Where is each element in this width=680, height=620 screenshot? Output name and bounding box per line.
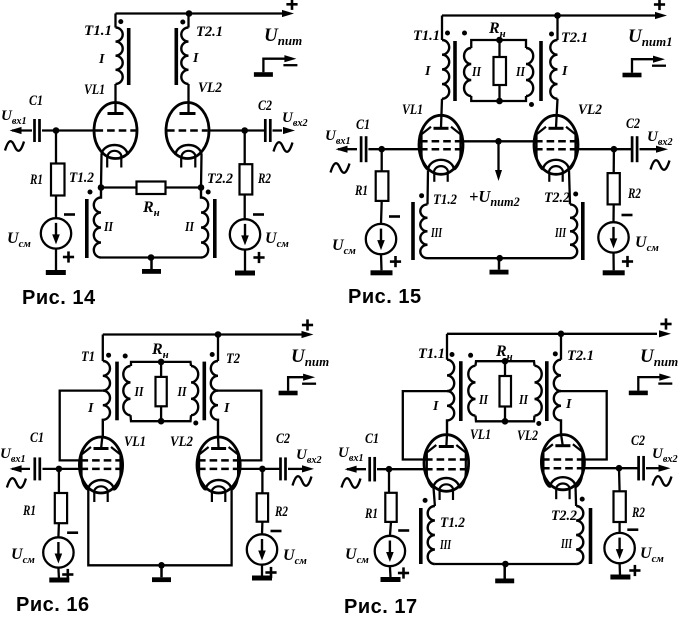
tube VL2 triode (fig.14) (166, 103, 209, 168)
tube VL1 beam tetrode (fig.17) (424, 435, 469, 500)
transformer T1.1 lead (fig.17) (446, 334, 448, 360)
plus sign on rail (fig.15) (654, 0, 665, 10)
transformer T1.1 core (fig.17) (459, 361, 463, 421)
minus sign Usm2 (fig.17) (627, 528, 638, 531)
power return symbol (fig.14) (254, 55, 298, 77)
phase dot T2 (fig.16) (210, 352, 215, 357)
svg-text:II: II (515, 65, 525, 80)
svg-text:III: III (439, 538, 451, 553)
wire cathode1 to Rn (fig.14) (101, 186, 137, 188)
svg-text:Рис. 15: Рис. 15 (348, 286, 422, 308)
anode lead VL2 inside envelope (fig.17) (561, 434, 563, 447)
transformer T1.1 winding I (fig.15) (442, 40, 449, 99)
winding II left top lead (fig.17) (476, 361, 506, 366)
transformer T2.1 winding I (fig.14) (181, 28, 188, 84)
bias source Usm left (fig.16) (43, 537, 73, 567)
winding II right top lead (fig.15) (500, 40, 527, 48)
svg-text:I: I (424, 64, 431, 79)
bias source Usm left (fig.17) (375, 536, 405, 566)
wire node to C2 (fig.14) (245, 129, 266, 131)
wire node to C2 (fig.16) (262, 468, 280, 470)
screen grid dashed VL1 (fig.15) (420, 140, 462, 143)
anode lead VL2 inside envelope (fig.16) (217, 436, 220, 450)
winding II left top lead (fig.16) (131, 362, 161, 366)
node: rail junction T2.1 (fig.15) (554, 12, 561, 19)
wire R2 to Usm right (fig.15) (612, 204, 615, 222)
svg-text:С2: С2 (626, 116, 640, 132)
plus sign on supply rail (fig.14) (286, 0, 297, 10)
svg-text:Рис. 16: Рис. 16 (16, 594, 90, 616)
control grid dashed VL2 (fig.15) (535, 148, 577, 151)
load resistor Rn (fig.14) (137, 182, 166, 195)
svg-text:III: III (430, 226, 442, 241)
node: rail junction to T2.1 (fig.14) (186, 10, 193, 17)
grid wire VL2 to node (fig.14) (208, 129, 245, 131)
winding II right bottom lead (fig.17) (505, 416, 535, 422)
input arrowhead left (fig.17) (345, 466, 357, 473)
resistor R1 (fig.17) (385, 493, 396, 522)
center ground (fig.15) (490, 258, 509, 274)
screen grid dashed VL2 (fig.17) (542, 458, 584, 461)
node: input junction 1 (fig.16) (56, 466, 63, 473)
node: grid 2 junction (fig.15) (611, 146, 618, 153)
minus sign Usm2 (fig.15) (622, 214, 633, 217)
grid wire VL2 to node (fig.17) (583, 467, 619, 469)
svg-text:VL1: VL1 (84, 82, 105, 98)
screen grid dashed VL2 (fig.16) (198, 459, 239, 462)
wire Usm to ground (fig.15) (380, 254, 383, 270)
node: bottom rail junction (fig.16) (158, 562, 165, 569)
supply rail +Upit (fig.17) (447, 333, 657, 335)
transformer T1 winding I lower half (fig.16) (103, 391, 110, 437)
anode lead VL1 inside envelope (fig.17) (445, 434, 448, 448)
center ground (fig.17) (495, 564, 514, 583)
svg-text:R1: R1 (354, 183, 368, 199)
node: Rn bottom junction (fig.15) (496, 98, 503, 105)
tube VL1 beam tetrode (fig.16) (79, 437, 122, 502)
svg-text:R1: R1 (364, 506, 378, 522)
node: Rn top junction (fig.15) (496, 37, 503, 44)
minus sign Usm1 (fig.15) (389, 215, 400, 218)
power return symbol (fig.15) (623, 56, 667, 78)
bias source Usm right (fig.14) (230, 219, 260, 249)
supply rail +Upit (fig.14) (116, 12, 286, 14)
resistor R2 (fig.15) (608, 173, 620, 204)
svg-text:I: I (87, 401, 94, 416)
screen grid dashed VL1 (fig.16) (81, 459, 122, 462)
load resistor Rn (fig.15) (494, 57, 507, 85)
node: screen bus junction (fig.15) (495, 138, 502, 145)
tap wire T1 to screen grid VL1 (fig.16) (60, 391, 103, 461)
phase dot T1.2 (fig.17) (423, 498, 428, 503)
sine symbol input 2 (fig.14) (274, 142, 293, 152)
bias source Usm left (fig.15) (366, 224, 396, 254)
supply rail +Upit (fig.16) (103, 333, 304, 335)
svg-text:III: III (560, 537, 572, 552)
rail arrowhead (fig.15) (655, 12, 667, 19)
wire C1 to grid node (fig.14) (42, 129, 96, 131)
wire R2 to Usm (fig.16) (261, 522, 264, 535)
output wire right (fig.17) (646, 467, 659, 469)
svg-text:VL1: VL1 (402, 102, 423, 118)
screen grid dashed VL2 (fig.15) (535, 140, 577, 143)
bias source Usm right (fig.16) (247, 534, 277, 564)
wire Rn bottom (fig.17) (504, 407, 506, 422)
rail arrowhead (fig.16) (302, 331, 314, 338)
transformer T2.1 winding I lower half (fig.17) (554, 391, 561, 435)
wire R1 to Usm source (fig.14) (55, 196, 57, 219)
transformer T1.2 winding III (fig.17) (428, 506, 435, 564)
minus sign Usm1 (fig.17) (398, 529, 409, 532)
winding II bottom wire (fig.15) (471, 96, 526, 101)
svg-text:II: II (518, 393, 528, 408)
phase dot T1 (fig.16) (106, 353, 111, 358)
circuit fig.17: ultralinear push-pull with cathode windings III (338, 318, 678, 618)
input arrowhead left (fig.15) (336, 146, 348, 153)
phase dot T1.2 (fig.14) (88, 190, 93, 195)
ground under Usm right (fig.17) (610, 575, 630, 580)
node: input junction 2 (fig.17) (616, 465, 623, 472)
wire Rn top (fig.16) (160, 362, 162, 377)
minus sign at Usm 1 (fig.14) (64, 213, 75, 216)
cathode lead VL2 (fig.15) (569, 170, 570, 204)
cathode wire VL1 to bottom rail (fig.16) (88, 489, 231, 565)
phase dot T2.1 (fig.14) (180, 20, 185, 25)
wire Usm2 to ground (fig.14) (244, 250, 246, 271)
sine symbol 1 (fig.16) (7, 478, 26, 488)
wire C1 to grid (fig.16) (43, 468, 81, 470)
wire R2 to Usm right (fig.14) (244, 195, 246, 220)
sine symbol input 1 (fig.14) (5, 141, 24, 151)
transformer T2.1 lead (fig.15) (556, 16, 558, 41)
svg-text:I: I (98, 52, 105, 67)
svg-text:С1: С1 (356, 117, 370, 133)
svg-text:Т2.1: Т2.1 (196, 24, 223, 40)
load resistor Rn (fig.17) (500, 376, 512, 407)
transformer T2 core (fig.16) (203, 362, 207, 421)
svg-text:С2: С2 (631, 433, 645, 449)
cathode lead VL2 (fig.17) (574, 487, 577, 507)
screen bus wire between tubes (fig.15) (463, 140, 534, 142)
svg-text:I: I (432, 399, 439, 414)
svg-text:Т1.1: Т1.1 (413, 28, 440, 44)
transformer T2.1 winding I (fig.15) (550, 40, 557, 99)
transformer T2.2 winding III (fig.17) (576, 506, 583, 564)
phase dot winding II left (fig.17) (468, 353, 473, 358)
winding II left bottom lead (fig.17) (476, 416, 506, 422)
phase dot winding II right (fig.16) (193, 421, 198, 426)
transformer T1 core (fig.16) (115, 362, 119, 421)
node: grid 1 junction (fig.15) (378, 146, 385, 153)
capacitor C1 (fig.16) (35, 457, 40, 480)
transformer T2.2 core (fig.15) (581, 202, 585, 260)
wire node to R2 (fig.16) (261, 469, 263, 493)
minus sign Usm2 (fig.16) (271, 530, 282, 533)
winding II left (fig.17) (468, 366, 475, 416)
capacitor C2 (fig.15) (632, 136, 637, 162)
ground under Usm left (fig.14) (46, 270, 66, 275)
wire to R1 (fig.16) (58, 469, 60, 493)
arrowhead right (fig.16) (302, 465, 314, 472)
resistor R2 (fig.16) (257, 493, 268, 521)
svg-text:VL1: VL1 (470, 427, 491, 443)
svg-text:R2: R2 (274, 504, 288, 520)
capacitor C2 (fig.14) (265, 119, 270, 142)
transformer T1.1 core (fig.15) (453, 41, 457, 101)
output wire right (fig.15) (640, 148, 658, 150)
transformer T2.2 core (fig.14) (213, 199, 217, 258)
winding II right (fig.15) (526, 48, 533, 96)
svg-text:Т1.2: Т1.2 (440, 515, 465, 531)
anode lead VL2 (fig.15) (556, 99, 558, 128)
svg-text:II: II (177, 385, 187, 400)
wire node to R2 (fig.15) (613, 149, 616, 173)
load resistor Rn (fig.16) (156, 377, 167, 406)
winding II left top lead (fig.15) (471, 40, 499, 48)
phase dot T2.1 (fig.15) (549, 32, 554, 37)
node: Rn bottom junction (fig.16) (158, 418, 165, 425)
anode lead VL1 (fig.15) (441, 99, 442, 128)
transformer T2.2 core (fig.17) (589, 508, 593, 564)
node: input junction 1 (fig.17) (386, 466, 393, 473)
wire to R1 (fig.15) (381, 149, 383, 171)
sine symbol 2 (fig.17) (653, 476, 672, 486)
grid wire VL2 to node (fig.15) (578, 148, 614, 150)
svg-text:С1: С1 (365, 431, 379, 447)
ground under Usm left (fig.17) (381, 577, 401, 582)
winding II right top lead (fig.17) (505, 361, 535, 366)
node: bottom junction (fig.15) (496, 255, 503, 262)
plus sign Usm2 (fig.17) (629, 565, 640, 576)
arrowhead right (fig.14) (283, 127, 295, 134)
winding II right (fig.17) (535, 366, 542, 416)
plus sign on rail (fig.17) (660, 318, 671, 329)
screen grid dashed VL1 (fig.17) (425, 458, 467, 461)
resistor R1 (fig.16) (55, 493, 67, 523)
svg-text:II: II (184, 220, 194, 235)
minus sign at Usm 2 (fig.14) (253, 213, 264, 216)
anode lead VL2 (wire) (fig.14) (187, 84, 189, 114)
tap wire T2.1 to screen VL2 (fig.17) (561, 391, 607, 459)
input arrowhead left (fig.16) (10, 465, 22, 472)
ground under Usm left (fig.16) (49, 578, 69, 583)
power return symbol (fig.16) (279, 374, 317, 396)
winding II left (fig.16) (123, 366, 130, 415)
sine symbol 1 (fig.17) (342, 478, 361, 488)
svg-text:II: II (134, 385, 144, 400)
anode lead VL1 inside envelope (fig.16) (101, 436, 102, 450)
transformer T2.1 core (fig.17) (545, 361, 549, 421)
wire Rn to cathode2 (fig.14) (166, 186, 202, 188)
resistor R1 (fig.14) (51, 164, 65, 196)
phase dot T1.2 (fig.15) (419, 193, 424, 198)
circuit fig.14: push-pull triode amplifier, load R_n between cathode windings (1, 0, 308, 309)
minus sign Usm1 (fig.16) (67, 531, 78, 534)
transformer T1.1 core (fig.14) (127, 28, 131, 85)
cathode lead VL1 (fig.17) (434, 488, 435, 507)
phase dot winding II left (fig.15) (462, 31, 467, 36)
transformer T1 lead (fig.16) (102, 335, 104, 362)
svg-text:С1: С1 (30, 430, 44, 446)
svg-text:VL2: VL2 (170, 434, 193, 450)
sine symbol 2 (fig.16) (293, 476, 312, 486)
capacitor C1 (fig.17) (370, 457, 375, 482)
transformer T2 winding I lower half (fig.16) (211, 391, 218, 437)
svg-text:I: I (223, 401, 230, 416)
transformer T2.1 primary lead (wire) (fig.14) (187, 14, 189, 28)
ground under Usm right (fig.16) (252, 576, 272, 581)
wire Usm to ground (fig.16) (57, 568, 60, 578)
wire R1 to Usm (fig.17) (390, 522, 391, 536)
rail arrowhead (fig.17) (659, 330, 671, 337)
control grid dashed VL2 (fig.16) (198, 468, 239, 471)
transformer T2 winding I upper half (fig.16) (211, 361, 218, 391)
wire Usm2 to ground (fig.16) (261, 565, 263, 576)
wire C1 to grid (fig.17) (377, 468, 425, 470)
node: Rn top junction (fig.17) (502, 358, 509, 365)
bottom wire between windings (fig.17) (435, 563, 576, 565)
tap wire T2 to screen grid VL2 (fig.16) (218, 391, 261, 461)
center ground (fig.16) (152, 565, 171, 582)
svg-text:II: II (478, 393, 488, 408)
transformer T1.2 winding III (fig.15) (420, 204, 427, 258)
arrowhead right (fig.15) (656, 146, 668, 153)
svg-text:VL2: VL2 (517, 428, 538, 444)
wire node to R2 (fig.17) (618, 468, 621, 491)
tube VL2 beam tetrode (fig.15) (534, 115, 578, 182)
wire Usm2 to ground (fig.15) (612, 253, 615, 271)
svg-text:II: II (103, 220, 113, 235)
ground under Usm left (fig.15) (371, 270, 393, 275)
wire Usm to ground (fig.17) (389, 566, 392, 577)
sine symbol 2 (fig.15) (651, 160, 670, 170)
wire Usm to ground (fig.14) (55, 249, 57, 270)
transformer T1.2 winding II (fig.14) (94, 188, 101, 258)
svg-text:R2: R2 (631, 505, 645, 521)
transformer T1.1 winding I lower half (fig.17) (447, 391, 454, 435)
wire grid node to R1 (fig.14) (55, 131, 57, 164)
plus sign Usm2 (fig.16) (265, 567, 276, 578)
svg-text:Т1.2: Т1.2 (69, 170, 94, 186)
input wire left (fig.17) (347, 468, 366, 470)
node: bottom center junction (fig.14) (148, 254, 155, 261)
transformer T2.2 winding II (fig.14) (201, 188, 208, 258)
transformer T1.1 winding I upper half (fig.17) (447, 360, 454, 391)
sine symbol 1 (fig.15) (331, 163, 350, 173)
svg-text:VL2: VL2 (578, 102, 602, 118)
transformer T1.1 lead (fig.15) (441, 16, 443, 41)
capacitor C1 (fig.14) (35, 119, 40, 142)
transformer T2 lead (fig.16) (217, 335, 219, 362)
svg-text:Т2: Т2 (226, 351, 240, 367)
plus sign Usm1 (fig.17) (398, 567, 409, 578)
resistor R2 (fig.17) (614, 491, 626, 522)
wire Rn top (fig.17) (504, 361, 506, 376)
input arrowhead left (fig.14) (10, 127, 22, 134)
phase dot T2.1 (fig.17) (553, 351, 558, 356)
phase dot T2.2 (fig.17) (580, 497, 585, 502)
tube VL2 beam tetrode (fig.16) (197, 437, 240, 502)
phase dot T2.2 (fig.15) (573, 192, 578, 197)
svg-text:Т2.2: Т2.2 (544, 190, 570, 206)
wire R1 to Usm (fig.15) (380, 201, 383, 224)
wire node to R2 (fig.14) (244, 131, 246, 165)
bias source Usm right (fig.17) (604, 533, 634, 563)
transformer T2.1 lead (fig.17) (560, 334, 562, 360)
control grid dashed VL1 (fig.16) (81, 468, 122, 471)
node: grid 2 junction (fig.14) (241, 127, 248, 134)
winding II right top lead (fig.16) (161, 362, 191, 366)
node: rail junction T2.1 (fig.17) (558, 331, 565, 338)
plus sign on rail (fig.16) (302, 319, 313, 330)
tube VL2 beam tetrode (fig.17) (541, 435, 584, 500)
resistor R2 (fig.14) (240, 164, 253, 194)
circuit fig.15: beam tetrode push-pull, load Rn between windings II (325, 0, 673, 308)
svg-text:II: II (471, 65, 481, 80)
wire node to C2 (fig.17) (619, 467, 639, 469)
phase dot T1.1 (fig.17) (450, 352, 455, 357)
svg-text:Т1.1: Т1.1 (84, 23, 112, 39)
winding II right (fig.16) (191, 366, 198, 415)
svg-text:R1: R1 (22, 503, 36, 519)
plus sign at Usm 1 (fig.14) (63, 251, 74, 262)
svg-text:Т2.2: Т2.2 (551, 508, 577, 524)
svg-text:С2: С2 (276, 431, 290, 447)
bottom wire between windings (fig.15) (428, 257, 571, 259)
node: cathode 1 junction (fig.14) (98, 184, 105, 191)
transformer T1.1 winding I (fig.14) (116, 28, 123, 84)
node: bottom junction (fig.17) (502, 561, 509, 568)
svg-text:Рис. 14: Рис. 14 (22, 287, 96, 309)
phase dot T1.1 (fig.15) (445, 31, 450, 36)
cathode lead VL1 (fig.15) (426, 170, 429, 204)
+Upit2 arrowhead (fig.15) (495, 170, 502, 181)
transformer T1.1 primary lead (wire) (fig.14) (114, 14, 116, 28)
svg-text:R2: R2 (257, 171, 271, 187)
svg-text:Т1.2: Т1.2 (433, 192, 457, 208)
node: grid 1 junction (fig.14) (53, 127, 60, 134)
winding II left bottom lead (fig.16) (131, 415, 162, 421)
capacitor C2 (fig.16) (281, 457, 286, 480)
wire node to C2 (fig.15) (614, 148, 632, 150)
capacitor C2 (fig.17) (639, 456, 644, 481)
svg-text:R1: R1 (29, 172, 43, 188)
svg-text:VL2: VL2 (198, 80, 222, 96)
wire to R1 (fig.17) (388, 469, 390, 493)
svg-text:Рис. 17: Рис. 17 (344, 596, 418, 618)
svg-text:Т2.1: Т2.1 (567, 348, 594, 364)
control grid dashed VL1 (fig.17) (425, 468, 467, 471)
svg-text:С1: С1 (29, 93, 43, 109)
capacitor C1 (fig.15) (361, 136, 366, 162)
svg-text:I: I (565, 397, 572, 412)
transformer T1 winding I upper half (fig.16) (103, 361, 110, 391)
center ground (fig.14) (142, 258, 161, 274)
plus sign Usm2 (fig.15) (622, 256, 633, 267)
transformer T1.2 core (fig.17) (419, 508, 423, 564)
tube VL1 triode (fig.14) (94, 103, 137, 168)
phase dot T2.2 (fig.14) (206, 190, 211, 195)
circuit fig.16: ultralinear push-pull, tapped primaries, cathodes grounded (0, 319, 329, 616)
wire Usm2 to ground (fig.17) (618, 563, 621, 574)
control grid dashed VL1 (fig.15) (420, 148, 462, 151)
wire Rn bottom (fig.15) (498, 85, 500, 101)
bottom wire between windings (fig.14) (101, 256, 201, 258)
svg-text:С2: С2 (258, 98, 272, 114)
node: input junction 2 (fig.16) (259, 466, 266, 473)
svg-text:R2: R2 (627, 186, 641, 202)
resistor R1 (fig.15) (376, 171, 389, 201)
